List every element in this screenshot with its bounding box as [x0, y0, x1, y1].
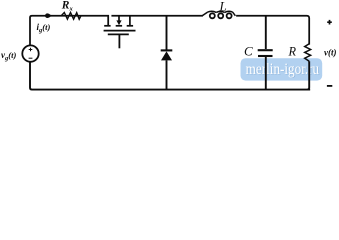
minus sign output — [327, 85, 332, 87]
cap top plate — [258, 49, 273, 51]
cap bottom wire — [265, 57, 267, 90]
watermark text — [246, 61, 320, 79]
wire rail after inductor to top-right corner — [237, 16, 309, 44]
contact bar left — [104, 25, 110, 27]
body arrow lead — [118, 16, 120, 21]
wire top rail right segment — [112, 15, 202, 17]
cap bottom plate — [258, 55, 273, 57]
svg-text:R: R — [288, 44, 297, 58]
transistor Q1 (MOSFET) — [104, 16, 136, 49]
diode wire — [166, 16, 168, 90]
wire bottom rail — [30, 62, 309, 89]
resistor Rx zigzag — [61, 13, 81, 20]
load zigzag — [305, 44, 311, 62]
diode triangle — [161, 51, 172, 60]
svg-text:vg(t): vg(t) — [1, 50, 16, 62]
inductor L — [202, 11, 235, 18]
capacitor C — [258, 16, 273, 90]
body arrowhead — [116, 20, 121, 25]
gate stub — [118, 34, 120, 48]
watermark plate — [241, 58, 323, 80]
contact bar middle — [116, 25, 122, 27]
diode D1 — [161, 16, 173, 90]
gate plate — [104, 30, 136, 32]
load bottom wire — [307, 61, 309, 89]
svg-text:merlin-igor.ru: merlin-igor.ru — [246, 61, 320, 78]
contact bar right — [127, 25, 133, 27]
svg-text:ig(t): ig(t) — [37, 22, 51, 34]
current arrow i_g — [45, 13, 50, 18]
svg-text:v(t): v(t) — [324, 48, 337, 58]
cap top wire — [265, 16, 267, 49]
voltage source Vg — [22, 45, 38, 61]
resistor R (load) — [305, 44, 311, 90]
gate bar — [108, 33, 129, 35]
wire top rail left segment + Q1 drain lead — [30, 16, 108, 45]
source lead — [129, 16, 131, 25]
svg-text:Rx: Rx — [61, 0, 74, 13]
plus sign output — [327, 20, 332, 25]
svg-text:L: L — [219, 0, 227, 14]
cathode bar — [161, 49, 173, 51]
svg-text:C: C — [244, 44, 253, 59]
